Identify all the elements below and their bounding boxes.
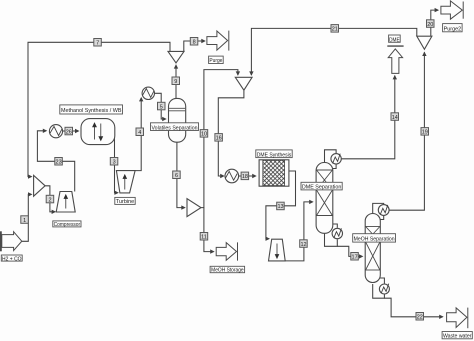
svg-text:6: 6 [175, 173, 178, 179]
svg-text:Purge: Purge [209, 58, 222, 64]
svg-text:10: 10 [201, 132, 207, 138]
svg-text:4: 4 [138, 130, 141, 136]
svg-text:12: 12 [300, 242, 306, 248]
svg-text:19: 19 [422, 130, 428, 136]
svg-text:Methanol Synthesis / WB: Methanol Synthesis / WB [61, 108, 122, 114]
svg-text:23: 23 [56, 160, 62, 166]
svg-text:Waste water: Waste water [443, 334, 472, 340]
svg-text:16: 16 [216, 136, 222, 142]
svg-text:Volatiles Separation: Volatiles Separation [152, 125, 198, 131]
svg-text:13: 13 [277, 204, 283, 210]
svg-text:Purge2: Purge2 [444, 26, 462, 32]
svg-text:7: 7 [96, 41, 99, 47]
svg-text:Compressor: Compressor [54, 222, 81, 228]
svg-text:26: 26 [66, 129, 72, 135]
svg-text:DME Synthesis: DME Synthesis [257, 152, 292, 158]
svg-text:MeOH Separation: MeOH Separation [354, 237, 395, 243]
svg-text:17: 17 [352, 255, 358, 261]
svg-text:14: 14 [392, 115, 398, 121]
svg-text:8: 8 [193, 40, 196, 46]
svg-text:2: 2 [48, 197, 51, 203]
svg-text:3: 3 [113, 160, 116, 166]
svg-text:21: 21 [332, 27, 338, 33]
svg-text:9: 9 [174, 79, 177, 85]
svg-text:H2 + CO: H2 + CO [2, 256, 22, 262]
svg-text:18: 18 [242, 174, 248, 180]
svg-text:1: 1 [23, 218, 26, 224]
svg-text:22: 22 [417, 315, 423, 321]
svg-text:Turbine: Turbine [116, 199, 135, 205]
svg-text:MeOH Storage: MeOH Storage [211, 268, 244, 274]
svg-text:DME Separation: DME Separation [302, 185, 342, 191]
svg-text:11: 11 [201, 235, 207, 241]
svg-text:DME: DME [389, 37, 400, 43]
svg-text:20: 20 [427, 22, 433, 28]
svg-text:5: 5 [160, 104, 163, 110]
